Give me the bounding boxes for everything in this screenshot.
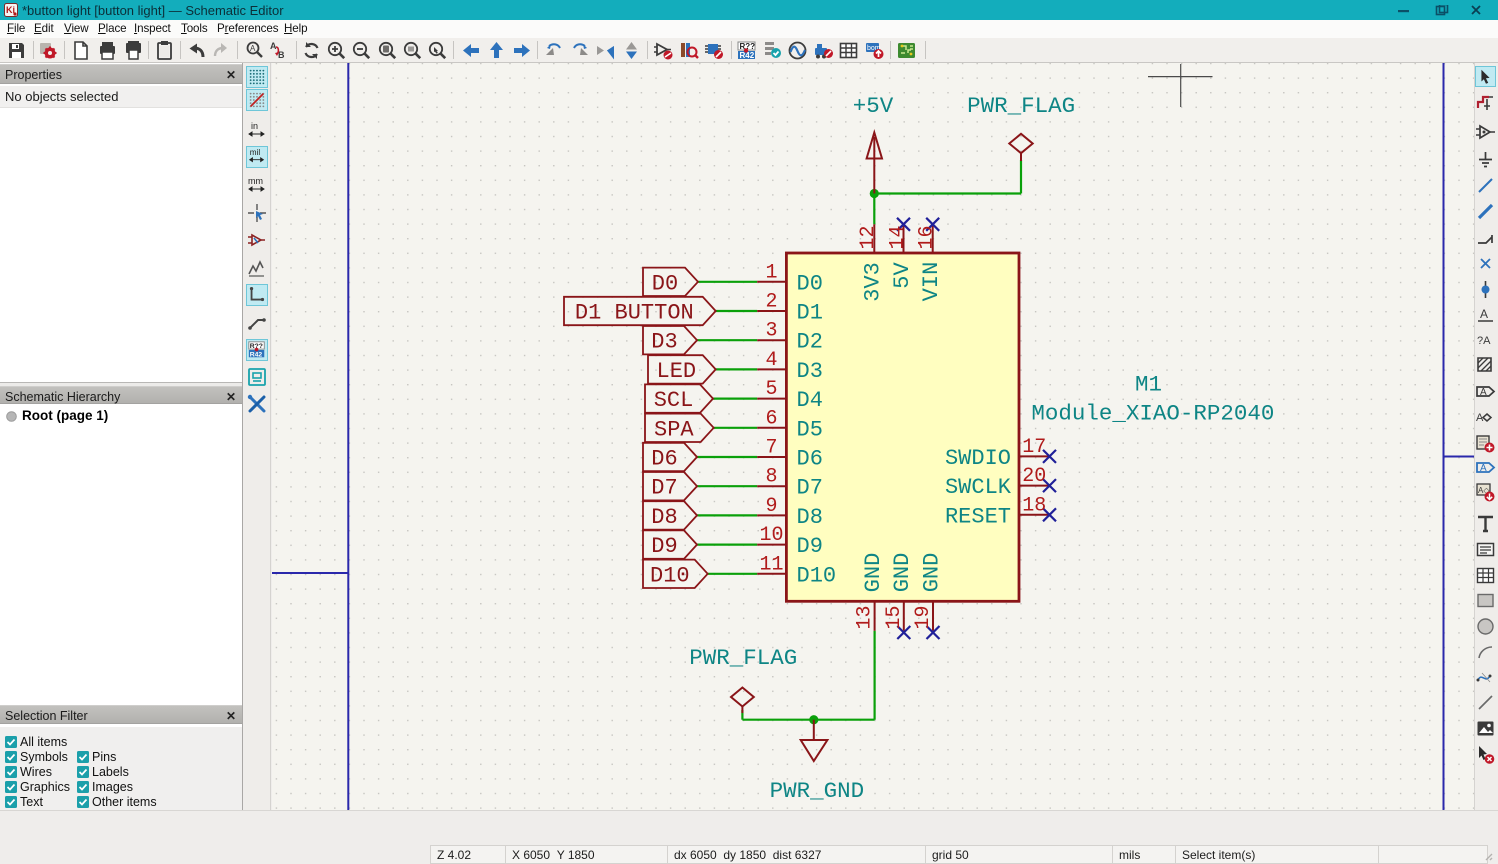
svg-text:mil: mil	[250, 148, 261, 157]
svg-text:GND: GND	[919, 553, 944, 593]
svg-text:D2: D2	[797, 330, 823, 355]
svg-text:D7: D7	[651, 476, 677, 501]
svg-text:GND: GND	[890, 553, 915, 593]
svg-text:17: 17	[1022, 436, 1046, 459]
svg-text:PWR_FLAG: PWR_FLAG	[689, 645, 797, 671]
svg-text:D4: D4	[797, 388, 823, 413]
svg-text:2: 2	[765, 291, 777, 314]
svg-text:SCL: SCL	[654, 388, 694, 413]
svg-text:+5V: +5V	[853, 93, 894, 119]
svg-text:SWDIO: SWDIO	[945, 446, 1011, 471]
svg-text:D1: D1	[797, 301, 823, 326]
svg-text:GND: GND	[861, 553, 886, 593]
svg-text:A: A	[1480, 387, 1487, 398]
svg-text:A: A	[1480, 463, 1487, 474]
svg-text:D5: D5	[797, 417, 823, 442]
svg-text:14: 14	[886, 225, 909, 249]
svg-text:D10: D10	[650, 563, 690, 588]
svg-text:D10: D10	[797, 563, 837, 588]
svg-text:5V: 5V	[890, 262, 915, 289]
svg-text:D8: D8	[797, 505, 823, 530]
svg-text:D3: D3	[797, 359, 823, 384]
svg-text:11: 11	[759, 553, 783, 576]
svg-text:9: 9	[765, 495, 777, 518]
svg-text:20: 20	[1022, 465, 1046, 488]
svg-text:12: 12	[857, 225, 880, 249]
svg-text:A: A	[250, 44, 256, 53]
svg-text:7: 7	[765, 437, 777, 460]
svg-text:D1 BUTTON: D1 BUTTON	[575, 301, 694, 326]
svg-text:D0: D0	[797, 271, 823, 296]
svg-text:4: 4	[765, 349, 777, 372]
svg-text:13: 13	[854, 605, 877, 629]
svg-text:16: 16	[915, 225, 938, 249]
svg-text:SPA: SPA	[654, 417, 694, 442]
svg-text:8: 8	[765, 466, 777, 489]
svg-text:A: A	[1480, 307, 1488, 321]
svg-text:R42: R42	[250, 351, 263, 358]
svg-text:VIN: VIN	[919, 262, 944, 302]
svg-text:3V3: 3V3	[861, 262, 886, 302]
svg-text:6: 6	[765, 407, 777, 430]
svg-text:?A: ?A	[1477, 335, 1491, 347]
svg-text:1: 1	[765, 261, 777, 284]
svg-text:19: 19	[912, 605, 935, 629]
svg-text:SWCLK: SWCLK	[945, 475, 1012, 500]
svg-text:D0: D0	[652, 271, 678, 296]
svg-text:M1: M1	[1135, 372, 1162, 398]
svg-text:10: 10	[759, 524, 783, 547]
svg-text:D6: D6	[797, 447, 823, 472]
svg-text:3: 3	[765, 320, 777, 343]
svg-text:15: 15	[883, 605, 906, 629]
svg-text:D9: D9	[797, 534, 823, 559]
svg-text:in: in	[251, 121, 258, 131]
svg-text:A: A	[270, 41, 277, 51]
svg-text:mm: mm	[248, 176, 263, 186]
svg-text:D7: D7	[797, 476, 823, 501]
svg-text:D3: D3	[651, 330, 677, 355]
svg-text:18: 18	[1022, 494, 1046, 517]
svg-text:LED: LED	[657, 359, 697, 384]
svg-text:RESET: RESET	[945, 504, 1011, 529]
svg-text:D8: D8	[651, 505, 677, 530]
svg-text:D9: D9	[651, 534, 677, 559]
svg-text:PWR_FLAG: PWR_FLAG	[967, 93, 1075, 119]
svg-text:PWR_GND: PWR_GND	[770, 778, 865, 804]
svg-text:5: 5	[765, 378, 777, 401]
svg-text:Module_XIAO-RP2040: Module_XIAO-RP2040	[1031, 401, 1274, 427]
svg-text:D6: D6	[651, 447, 677, 472]
